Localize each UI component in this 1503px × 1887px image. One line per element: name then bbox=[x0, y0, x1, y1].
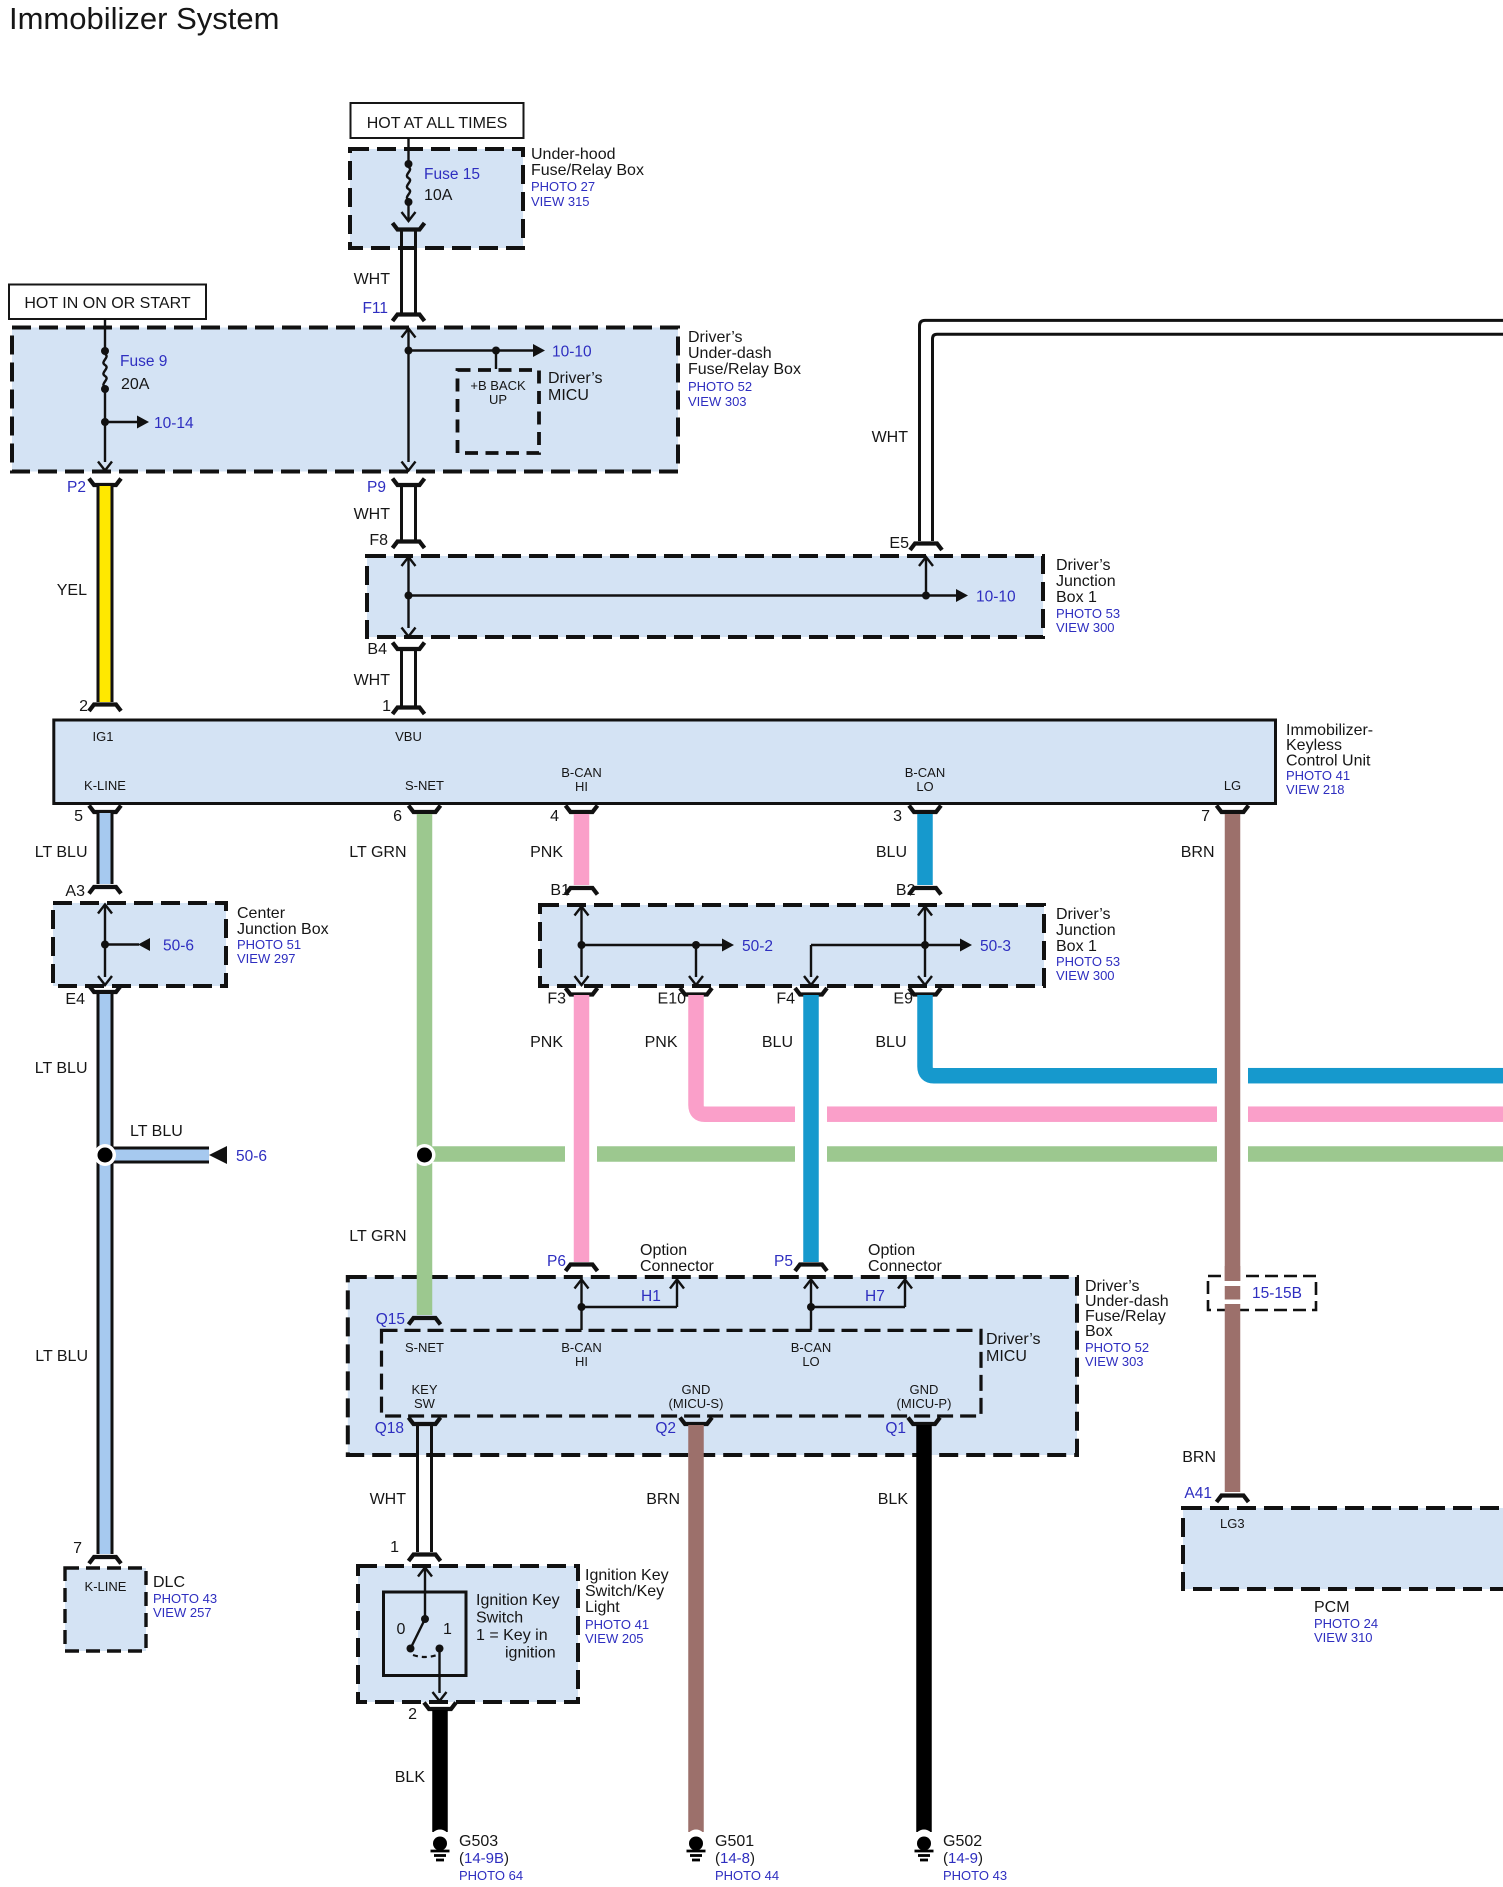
wire BRN 15-15B to A41 bbox=[1182, 1304, 1248, 1502]
svg-text:MICU: MICU bbox=[986, 1348, 1027, 1365]
node S-NET junction on LT GRN bbox=[414, 1144, 436, 1166]
svg-text:GND: GND bbox=[910, 1382, 939, 1397]
svg-text:Fuse 9: Fuse 9 bbox=[120, 353, 167, 370]
svg-text:HI: HI bbox=[575, 779, 588, 794]
junction box internals B1-F3/E10 with 50-2 bbox=[575, 907, 774, 986]
svg-text:Immobilizer System: Immobilizer System bbox=[9, 1, 279, 36]
svg-text:Control Unit: Control Unit bbox=[1286, 753, 1371, 770]
svg-text:Q15: Q15 bbox=[376, 1311, 405, 1328]
wire from HOT AT ALL TIMES into box bbox=[407, 138, 409, 164]
svg-text:3: 3 bbox=[893, 808, 902, 825]
svg-text:Option: Option bbox=[640, 1242, 687, 1259]
wire BLU pin3 to B2 bbox=[876, 806, 941, 900]
Driver's Under-dash Fuse/Relay Box (top) bbox=[12, 328, 801, 472]
svg-text:B1: B1 bbox=[550, 882, 570, 899]
svg-text:50-3: 50-3 bbox=[980, 938, 1011, 955]
svg-text:VBU: VBU bbox=[395, 729, 422, 744]
switch S1 (ignition key switch) bbox=[384, 1568, 560, 1702]
svg-text:Box 1: Box 1 bbox=[1056, 938, 1097, 955]
svg-text:Q1: Q1 bbox=[885, 1420, 906, 1437]
svg-text:P5: P5 bbox=[774, 1253, 793, 1270]
label box HOT IN ON OR START bbox=[9, 285, 206, 320]
fuse F9 (Fuse 9 20A) bbox=[101, 347, 167, 393]
svg-text:1: 1 bbox=[390, 1539, 399, 1556]
svg-text:Connector: Connector bbox=[640, 1258, 714, 1275]
svg-text:B4: B4 bbox=[367, 641, 387, 658]
svg-text:WHT: WHT bbox=[370, 1491, 407, 1508]
svg-text:VIEW 310: VIEW 310 bbox=[1314, 1630, 1373, 1645]
svg-text:6: 6 bbox=[393, 808, 402, 825]
junction box 1 internal wires: F8 to B4, branch to E5 and 10-10 bbox=[402, 557, 1017, 637]
svg-text:Driver’s: Driver’s bbox=[986, 1331, 1041, 1348]
svg-text:B2: B2 bbox=[896, 882, 916, 899]
svg-text:5: 5 bbox=[74, 808, 83, 825]
svg-text:Under-dash: Under-dash bbox=[688, 345, 772, 362]
svg-text:Switch/Key: Switch/Key bbox=[585, 1583, 664, 1600]
wire LT GRN horizontal bus from S-NET junction bbox=[425, 1146, 1503, 1162]
wire WHT Q18 to ignition key switch bbox=[370, 1418, 441, 1562]
svg-text:G501: G501 bbox=[715, 1833, 754, 1850]
svg-text:50-2: 50-2 bbox=[742, 938, 773, 955]
svg-text:PNK: PNK bbox=[530, 1034, 563, 1051]
wire WHT B4 to pin 1 bbox=[354, 641, 425, 715]
svg-text:BRN: BRN bbox=[1181, 844, 1215, 861]
svg-text:Keyless: Keyless bbox=[1286, 737, 1342, 754]
wire fuse9 down to P2 with 10-14 branch bbox=[98, 389, 194, 471]
svg-text:BLU: BLU bbox=[762, 1034, 793, 1051]
svg-text:Q18: Q18 bbox=[375, 1420, 404, 1437]
svg-text:KEY: KEY bbox=[411, 1382, 437, 1397]
svg-text:(MICU-S): (MICU-S) bbox=[669, 1396, 724, 1411]
svg-text:1: 1 bbox=[443, 1621, 452, 1638]
svg-text:2: 2 bbox=[79, 698, 88, 715]
svg-text:Junction: Junction bbox=[1056, 573, 1116, 590]
svg-text:VIEW 303: VIEW 303 bbox=[1085, 1354, 1144, 1369]
svg-text:LT GRN: LT GRN bbox=[349, 844, 406, 861]
wire LT BLU E4 long down to DLC bbox=[35, 986, 121, 1564]
svg-text:VIEW 315: VIEW 315 bbox=[531, 194, 590, 209]
svg-text:15-15B: 15-15B bbox=[1252, 1285, 1302, 1302]
svg-text:LT BLU: LT BLU bbox=[35, 1060, 88, 1077]
svg-text:Center: Center bbox=[237, 905, 286, 922]
svg-text:GND: GND bbox=[682, 1382, 711, 1397]
svg-text:F11: F11 bbox=[362, 300, 388, 317]
svg-text:B-CAN: B-CAN bbox=[905, 765, 945, 780]
svg-text:LT BLU: LT BLU bbox=[130, 1123, 183, 1140]
svg-text:PHOTO 53: PHOTO 53 bbox=[1056, 606, 1120, 621]
wire PNK E10 down then right (horizontal pink bus) bbox=[645, 988, 1503, 1122]
svg-text:B-CAN: B-CAN bbox=[791, 1340, 831, 1355]
fuse F15 (Fuse 15 10A) bbox=[402, 160, 481, 221]
wire YEL P2 to pin 2 bbox=[57, 479, 121, 716]
wire BLU F4 down to P5 bbox=[762, 988, 827, 1271]
svg-text:Driver’s: Driver’s bbox=[1056, 906, 1111, 923]
svg-text:PHOTO 52: PHOTO 52 bbox=[688, 379, 752, 394]
svg-text:Light: Light bbox=[585, 1599, 620, 1616]
svg-text:(14-8): (14-8) bbox=[715, 1850, 755, 1867]
svg-text:Driver’s: Driver’s bbox=[688, 329, 743, 346]
svg-text:+B BACK: +B BACK bbox=[470, 378, 526, 393]
ground G503 bbox=[431, 1830, 524, 1884]
svg-text:Box: Box bbox=[1085, 1323, 1113, 1340]
svg-text:HOT IN ON OR START: HOT IN ON OR START bbox=[24, 295, 190, 312]
svg-text:Driver’s: Driver’s bbox=[1056, 557, 1111, 574]
svg-text:G503: G503 bbox=[459, 1833, 498, 1850]
svg-text:G502: G502 bbox=[943, 1833, 982, 1850]
wire BLK Q1 to G502 bbox=[878, 1418, 940, 1833]
svg-text:WHT: WHT bbox=[354, 271, 391, 288]
svg-text:Ignition Key: Ignition Key bbox=[476, 1592, 560, 1609]
svg-text:WHT: WHT bbox=[354, 506, 391, 523]
svg-text:VIEW 257: VIEW 257 bbox=[153, 1605, 212, 1620]
svg-text:BLK: BLK bbox=[395, 1769, 426, 1786]
svg-text:Driver’s: Driver’s bbox=[548, 370, 603, 387]
svg-text:PHOTO 41: PHOTO 41 bbox=[585, 1617, 649, 1632]
wire LT BLU stub to 50-6 bbox=[105, 1123, 267, 1165]
svg-text:E5: E5 bbox=[889, 535, 909, 552]
svg-text:BLU: BLU bbox=[875, 1034, 906, 1051]
svg-text:VIEW 205: VIEW 205 bbox=[585, 1631, 644, 1646]
svg-text:10A: 10A bbox=[424, 187, 453, 204]
svg-text:H7: H7 bbox=[865, 1288, 885, 1305]
svg-text:P6: P6 bbox=[547, 1253, 566, 1270]
svg-text:E9: E9 bbox=[893, 991, 913, 1008]
wire PNK pin4 to B1 bbox=[530, 806, 597, 900]
svg-text:Connector: Connector bbox=[868, 1258, 942, 1275]
svg-text:MICU: MICU bbox=[548, 387, 589, 404]
svg-text:4: 4 bbox=[550, 808, 559, 825]
svg-text:PHOTO 53: PHOTO 53 bbox=[1056, 954, 1120, 969]
svg-text:PHOTO 52: PHOTO 52 bbox=[1085, 1340, 1149, 1355]
svg-text:2: 2 bbox=[408, 1706, 417, 1723]
svg-text:LO: LO bbox=[916, 779, 933, 794]
svg-text:WHT: WHT bbox=[872, 429, 909, 446]
svg-text:Junction: Junction bbox=[1056, 922, 1116, 939]
connector 15-15B inline bbox=[1208, 1266, 1316, 1310]
connector +B BACK UP (Driver's MICU) bbox=[458, 370, 603, 453]
ground G502 bbox=[915, 1830, 1008, 1884]
svg-text:(14-9B): (14-9B) bbox=[459, 1850, 509, 1867]
PCM box bbox=[1183, 1508, 1503, 1645]
svg-text:Fuse/Relay Box: Fuse/Relay Box bbox=[688, 361, 801, 378]
svg-text:1: 1 bbox=[382, 698, 391, 715]
svg-text:F8: F8 bbox=[369, 532, 388, 549]
svg-text:Under-hood: Under-hood bbox=[531, 146, 616, 163]
Driver's Junction Box 1 (lower) bbox=[540, 905, 1120, 986]
node P5 label + option connector H7 bbox=[774, 1242, 942, 1330]
svg-text:VIEW 300: VIEW 300 bbox=[1056, 968, 1115, 983]
svg-text:VIEW 297: VIEW 297 bbox=[237, 951, 296, 966]
Driver's MICU box bbox=[382, 1330, 1041, 1416]
svg-text:PHOTO 41: PHOTO 41 bbox=[1286, 768, 1350, 783]
svg-text:Fuse 15: Fuse 15 bbox=[424, 166, 480, 183]
label box HOT AT ALL TIMES bbox=[351, 103, 524, 138]
svg-text:50-6: 50-6 bbox=[163, 938, 194, 955]
wire WHT E5 up and right to page edge bbox=[872, 320, 1503, 552]
svg-text:VIEW 303: VIEW 303 bbox=[688, 394, 747, 409]
Center Junction Box bbox=[53, 903, 329, 986]
svg-text:VIEW 300: VIEW 300 bbox=[1056, 620, 1115, 635]
svg-text:P9: P9 bbox=[367, 479, 386, 496]
svg-text:A41: A41 bbox=[1184, 1485, 1212, 1502]
svg-text:Ignition Key: Ignition Key bbox=[585, 1567, 669, 1584]
wire LT GRN pin6 down to Q15 bbox=[349, 806, 440, 1325]
Under-hood Fuse/Relay Box bbox=[350, 146, 644, 248]
svg-text:Option: Option bbox=[868, 1242, 915, 1259]
svg-text:BRN: BRN bbox=[1182, 1449, 1216, 1466]
svg-text:Q2: Q2 bbox=[655, 1420, 676, 1437]
wire PNK F3 down to P6 bbox=[530, 988, 597, 1271]
wire BRN Q2 to G501 bbox=[646, 1418, 712, 1833]
svg-text:10-14: 10-14 bbox=[154, 415, 194, 432]
Driver's Under-dash Fuse/Relay Box (bottom) bbox=[348, 1277, 1169, 1455]
svg-text:BRN: BRN bbox=[646, 1491, 680, 1508]
wire LT GRN S-NET into MICU (overlay) bbox=[409, 1272, 441, 1325]
wire BRN pin7 down to 15-15B bbox=[1181, 806, 1249, 1282]
svg-text:SW: SW bbox=[414, 1396, 436, 1411]
ground G501 bbox=[687, 1830, 780, 1884]
svg-text:S-NET: S-NET bbox=[405, 1340, 444, 1355]
wire from HOT IN ON OR START into box bbox=[104, 319, 106, 351]
svg-text:LT BLU: LT BLU bbox=[35, 844, 88, 861]
node junction on LT BLU bbox=[94, 1144, 116, 1166]
svg-text:VIEW 218: VIEW 218 bbox=[1286, 782, 1345, 797]
svg-text:K-LINE: K-LINE bbox=[85, 1579, 127, 1594]
svg-text:HOT AT ALL TIMES: HOT AT ALL TIMES bbox=[367, 115, 508, 132]
svg-text:(MICU-P): (MICU-P) bbox=[897, 1396, 952, 1411]
svg-text:PHOTO 44: PHOTO 44 bbox=[715, 1868, 779, 1883]
svg-text:Junction Box: Junction Box bbox=[237, 921, 329, 938]
svg-text:Fuse/Relay Box: Fuse/Relay Box bbox=[531, 162, 644, 179]
svg-text:F4: F4 bbox=[776, 991, 795, 1008]
wire F11 through box to P9 with 10-10 branch and +B BACK UP bbox=[402, 329, 593, 471]
wire LT BLU pin5 to A3 bbox=[35, 806, 121, 901]
svg-text:10-10: 10-10 bbox=[976, 589, 1016, 606]
svg-text:PHOTO 64: PHOTO 64 bbox=[459, 1868, 523, 1883]
svg-text:7: 7 bbox=[1201, 808, 1210, 825]
wire BLK pin2 to G503 bbox=[395, 1703, 456, 1833]
svg-text:H1: H1 bbox=[641, 1288, 661, 1305]
svg-text:UP: UP bbox=[489, 392, 507, 407]
svg-text:LG: LG bbox=[1224, 778, 1241, 793]
svg-text:0: 0 bbox=[397, 1621, 406, 1638]
svg-text:LG3: LG3 bbox=[1220, 1516, 1245, 1531]
svg-text:A3: A3 bbox=[65, 883, 85, 900]
svg-text:IG1: IG1 bbox=[93, 729, 114, 744]
svg-text:PNK: PNK bbox=[530, 844, 563, 861]
wire WHT P9 to F8 bbox=[354, 479, 425, 550]
svg-text:B-CAN: B-CAN bbox=[561, 1340, 601, 1355]
wire WHT fuse15 to F11 bbox=[354, 223, 425, 321]
svg-text:LT GRN: LT GRN bbox=[349, 1228, 406, 1245]
svg-text:BLK: BLK bbox=[878, 1491, 909, 1508]
center junction box internal wire with 50-6 bbox=[98, 905, 194, 986]
svg-text:Box 1: Box 1 bbox=[1056, 589, 1097, 606]
node P6 label + option connector H1 bbox=[547, 1242, 714, 1330]
svg-text:LT BLU: LT BLU bbox=[35, 1348, 88, 1365]
svg-text:BLU: BLU bbox=[876, 844, 907, 861]
svg-text:ignition: ignition bbox=[505, 1645, 556, 1662]
svg-text:Switch: Switch bbox=[476, 1610, 523, 1627]
svg-text:PHOTO 43: PHOTO 43 bbox=[153, 1591, 217, 1606]
svg-text:(14-9): (14-9) bbox=[943, 1850, 983, 1867]
svg-text:PNK: PNK bbox=[645, 1034, 678, 1051]
Ignition Key Switch / Key Light box bbox=[358, 1566, 669, 1702]
svg-text:20A: 20A bbox=[121, 376, 150, 393]
svg-text:PHOTO 43: PHOTO 43 bbox=[943, 1868, 1007, 1883]
svg-text:K-LINE: K-LINE bbox=[84, 778, 126, 793]
svg-text:P2: P2 bbox=[67, 479, 86, 496]
svg-text:LO: LO bbox=[802, 1354, 819, 1369]
DLC box bbox=[65, 1568, 217, 1651]
svg-text:PHOTO 24: PHOTO 24 bbox=[1314, 1616, 1378, 1631]
svg-text:10-10: 10-10 bbox=[552, 344, 592, 361]
junction box internals B2-E9/F4 with 50-3 bbox=[804, 907, 1011, 986]
svg-text:S-NET: S-NET bbox=[405, 778, 444, 793]
svg-text:7: 7 bbox=[73, 1540, 82, 1557]
svg-text:WHT: WHT bbox=[354, 672, 391, 689]
svg-text:DLC: DLC bbox=[153, 1574, 185, 1591]
svg-text:50-6: 50-6 bbox=[236, 1148, 267, 1165]
svg-text:PHOTO 27: PHOTO 27 bbox=[531, 179, 595, 194]
svg-text:YEL: YEL bbox=[57, 582, 87, 599]
svg-text:PCM: PCM bbox=[1314, 1599, 1350, 1616]
Driver's Junction Box 1 (upper) bbox=[367, 556, 1120, 637]
svg-text:HI: HI bbox=[575, 1354, 588, 1369]
svg-text:B-CAN: B-CAN bbox=[561, 765, 601, 780]
svg-text:1 = Key in: 1 = Key in bbox=[476, 1627, 548, 1644]
Immobilizer-Keyless Control Unit bbox=[54, 720, 1373, 804]
svg-text:PHOTO 51: PHOTO 51 bbox=[237, 937, 301, 952]
svg-text:F3: F3 bbox=[547, 991, 566, 1008]
wire BLU E9 down then right (horizontal blue bus) bbox=[875, 988, 1503, 1083]
svg-text:E4: E4 bbox=[65, 991, 85, 1008]
